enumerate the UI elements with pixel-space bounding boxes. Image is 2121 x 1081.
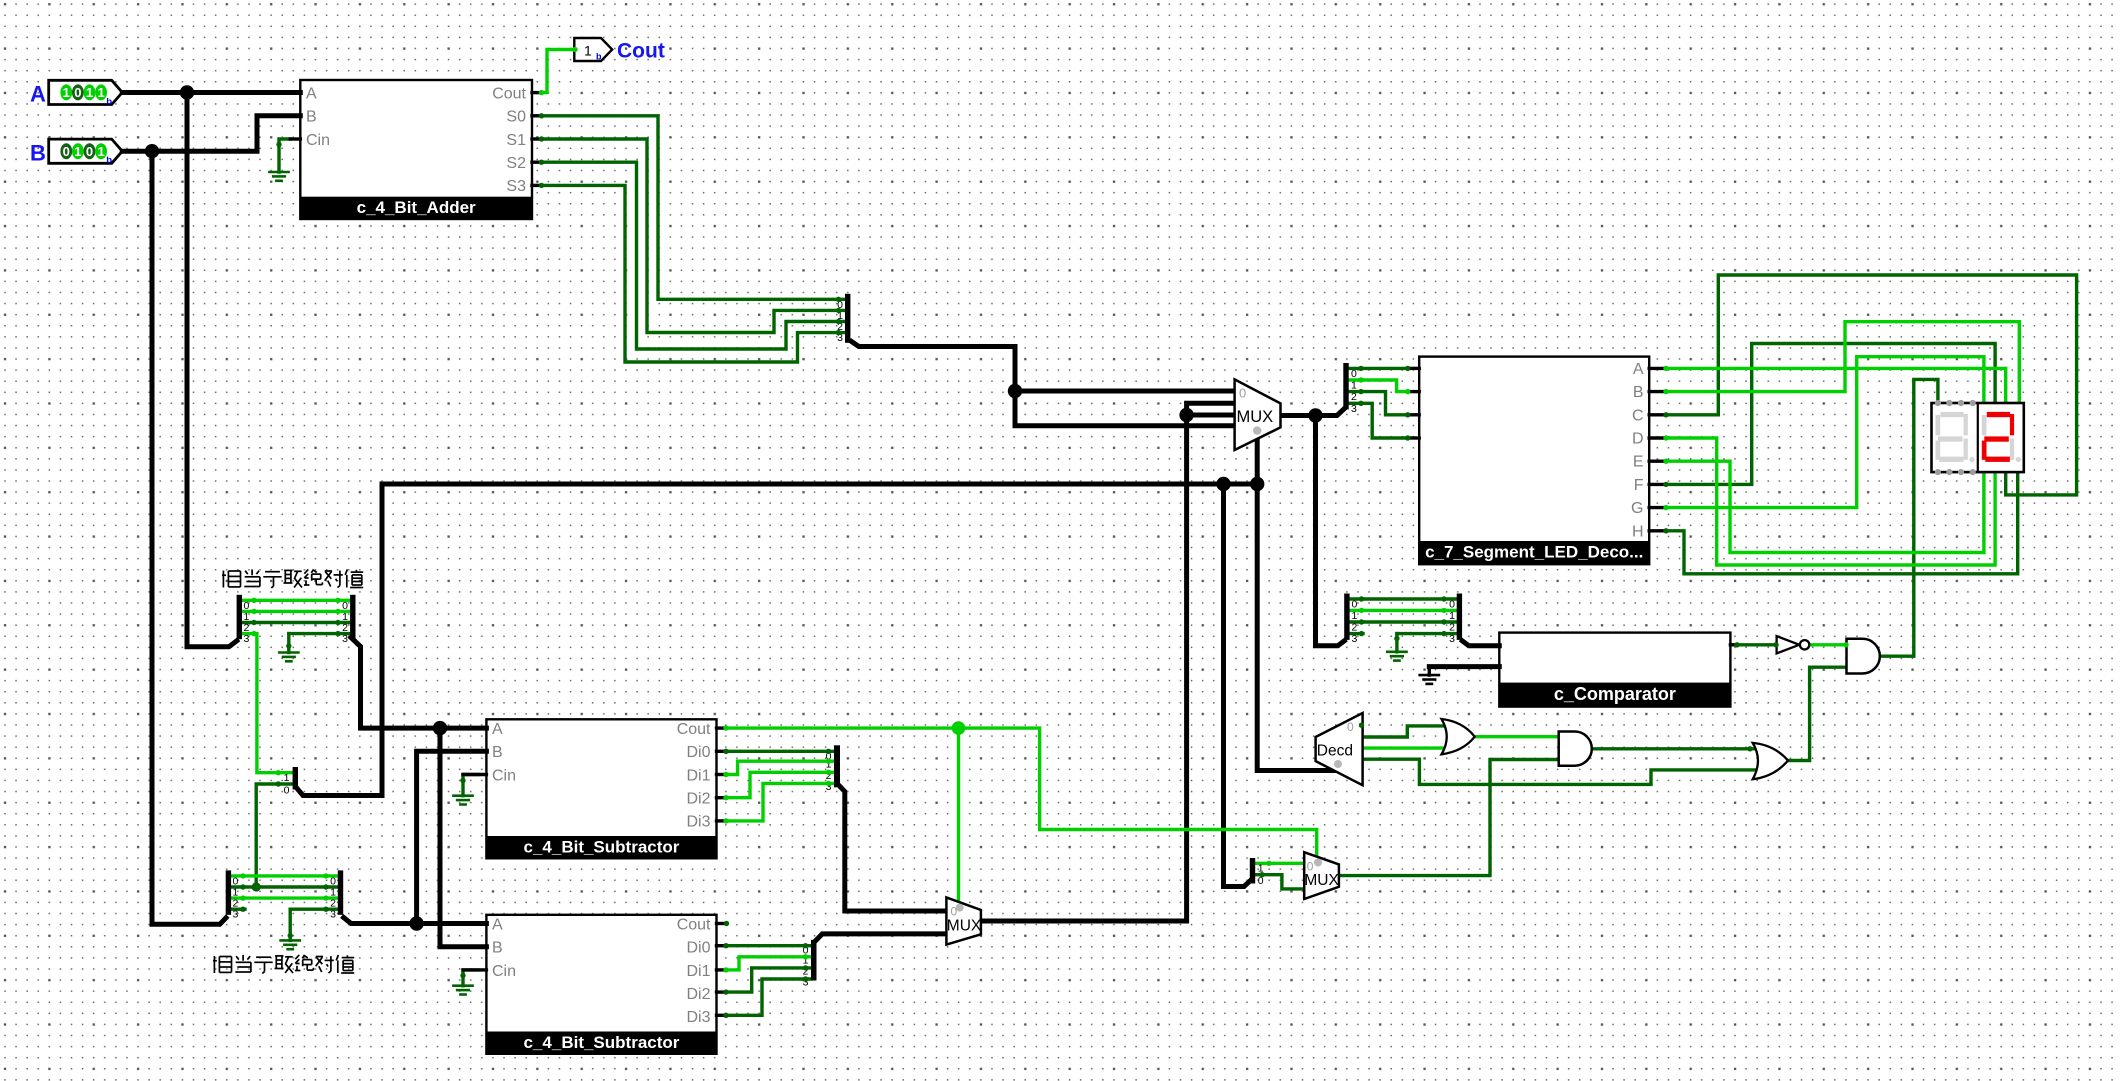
wire decoder splitter pin3 bbox=[1349, 403, 1408, 438]
svg-text:Di2: Di2 bbox=[686, 791, 710, 808]
svg-text:b: b bbox=[106, 155, 112, 166]
svg-text:S0: S0 bbox=[506, 109, 526, 126]
svg-text:0: 0 bbox=[284, 785, 290, 797]
black junction nodes bbox=[145, 85, 1323, 930]
7-segment display (showing 2) bbox=[1932, 400, 2024, 475]
NOT gate G1 bbox=[1777, 636, 1810, 653]
wire NOT gate output to AND G4 bbox=[1809, 643, 1846, 646]
wire splitter S2 row3 stub bbox=[231, 908, 245, 911]
svg-text:Decd: Decd bbox=[1317, 743, 1353, 760]
4-bit subtractor U3 bbox=[486, 915, 716, 1054]
wire MUX1 input2 branch bbox=[1187, 413, 1235, 418]
svg-text:B: B bbox=[492, 940, 503, 957]
svg-text:C: C bbox=[1632, 407, 1644, 424]
wire splitter S1 row0 bbox=[242, 599, 350, 602]
svg-text:G: G bbox=[1631, 500, 1643, 517]
svg-text:B: B bbox=[492, 744, 503, 761]
comparator splitter right bar bbox=[1457, 594, 1462, 640]
svg-text:Cin: Cin bbox=[492, 963, 516, 980]
AND gate G4 (to display) bbox=[1847, 639, 1880, 674]
svg-text:MUX: MUX bbox=[947, 918, 982, 935]
wire select distribution bus bbox=[382, 482, 1257, 487]
wire junction to subtractor U3 B bbox=[440, 728, 486, 947]
wire decoder A to display bbox=[1666, 368, 2006, 403]
svg-text:3: 3 bbox=[1449, 633, 1455, 645]
svg-text:1: 1 bbox=[584, 43, 592, 59]
wire MUX3 output loop to MUX1 in1 bbox=[981, 403, 1235, 921]
wire MUX1 select bbox=[1255, 439, 1260, 484]
comparator splitter left bar bbox=[1344, 594, 1349, 640]
splitter S2 left bar bbox=[226, 870, 231, 914]
svg-text:0: 0 bbox=[1449, 599, 1455, 611]
splitter S2 right bar bbox=[338, 870, 343, 914]
merger M1 bar (adder outputs) bbox=[845, 294, 850, 343]
wire comparator splitter row1 bbox=[1350, 609, 1457, 612]
svg-text:1: 1 bbox=[63, 85, 70, 100]
wire branch down to Decd input bbox=[1257, 484, 1336, 771]
subtractor U2 Di merger bar bbox=[834, 745, 840, 787]
wire decoder G to display bbox=[1666, 357, 1984, 508]
wire splitter S1 row2 bbox=[242, 621, 350, 624]
svg-text:3: 3 bbox=[330, 909, 336, 921]
dark junction node (splitter S2 row1) bbox=[252, 882, 261, 891]
wire splitter S1 row3 ground bbox=[289, 634, 350, 653]
svg-text:Cout: Cout bbox=[677, 721, 711, 738]
wire subtractor U2 Di0 bbox=[726, 750, 834, 753]
wire decoder B to display bbox=[1666, 322, 2019, 403]
AND gate G3 bbox=[1559, 732, 1592, 766]
wire branch to MUX3 select bbox=[957, 728, 960, 902]
OR gate G2 bbox=[1442, 719, 1475, 754]
ground symbol comparator in2 bbox=[1420, 675, 1439, 684]
OR gate G5 bbox=[1753, 743, 1788, 779]
svg-text:0: 0 bbox=[1351, 368, 1357, 380]
MUX2 (2-to-1, right) bbox=[1304, 852, 1339, 899]
wire decoder splitter pin2 bbox=[1349, 392, 1408, 415]
wire subtractor U2 Cout to MUX selects bbox=[726, 728, 1317, 857]
svg-text:Di1: Di1 bbox=[686, 768, 710, 785]
svg-text:S1: S1 bbox=[506, 132, 526, 149]
svg-text:MUX: MUX bbox=[1304, 872, 1339, 889]
svg-text:c_4_Bit_Subtractor: c_4_Bit_Subtractor bbox=[524, 1033, 680, 1052]
svg-text:B: B bbox=[1633, 384, 1644, 401]
svg-text:S3: S3 bbox=[506, 178, 526, 195]
wire S0 bbox=[542, 116, 846, 299]
wire comparator splitter row2 bbox=[1350, 620, 1457, 623]
svg-text:c_7_Segment_LED_Deco...: c_7_Segment_LED_Deco... bbox=[1425, 543, 1643, 562]
wire Decd out2 to OR G2 bbox=[1363, 746, 1444, 749]
wire MUX1 output down to comparator splitter bbox=[1316, 416, 1345, 646]
input pin B (value 0101) bbox=[30, 139, 122, 166]
wire splitter S1 output bus to subtractor U2 A bbox=[351, 638, 486, 729]
svg-text:1: 1 bbox=[97, 85, 104, 100]
wire MUX1 input0 branch bbox=[1015, 389, 1235, 394]
svg-text:1: 1 bbox=[97, 144, 104, 159]
ground symbol U2 Cin bbox=[453, 796, 472, 805]
svg-text:0: 0 bbox=[1352, 599, 1358, 611]
wire comparator splitter row3 ground bbox=[1397, 634, 1457, 652]
wire comparator splitter bus to comparator in1 bbox=[1462, 641, 1499, 646]
svg-text:3: 3 bbox=[1352, 633, 1358, 645]
svg-text:3: 3 bbox=[1351, 403, 1357, 415]
wire comparator splitter row0 bbox=[1350, 597, 1457, 600]
input pin A (value 1011) bbox=[30, 80, 122, 107]
MUX2 input splitter bar bbox=[1250, 858, 1255, 884]
wire OR G5 output to AND G4 bbox=[1788, 667, 1847, 760]
splitter S1 left bar bbox=[237, 595, 242, 639]
wire merger M2 pin0 from splitter S2 row1 bbox=[256, 784, 292, 887]
wire AND G4 output to display bbox=[1880, 379, 1938, 656]
wire Decd out3 to OR gate G5 bbox=[1363, 759, 1755, 784]
node B-junction vertical bus to splitter S2 bbox=[152, 151, 226, 924]
wire comparator in2 to ground bbox=[1429, 667, 1499, 676]
svg-text:F: F bbox=[1634, 477, 1644, 494]
ground symbol adder Cin bbox=[269, 172, 288, 181]
svg-text:H: H bbox=[1632, 523, 1644, 540]
wire MUX2 output to AND gate G3 bbox=[1339, 760, 1559, 876]
wire comparator output to NOT gate bbox=[1737, 643, 1777, 646]
wire subtractor U3 Di bus to MUX3 in1 bbox=[817, 934, 947, 940]
wire splitter S2 row2 bbox=[231, 896, 338, 899]
annotation text 1 (equivalent to absolute value) bbox=[222, 569, 363, 588]
svg-text:A: A bbox=[306, 86, 317, 103]
svg-text:0: 0 bbox=[1347, 720, 1354, 734]
4-bit subtractor U2 bbox=[486, 719, 716, 858]
wire subtractor U2 Di1 bbox=[726, 761, 834, 774]
svg-text:A: A bbox=[492, 721, 503, 738]
wire splitter S1 row1 bbox=[242, 610, 350, 613]
svg-text:b: b bbox=[596, 52, 602, 62]
svg-text:A: A bbox=[492, 917, 503, 934]
wire bus input B to adder bbox=[122, 116, 300, 151]
decoder input splitter bar bbox=[1343, 363, 1348, 409]
svg-text:0: 0 bbox=[86, 144, 93, 159]
svg-text:0: 0 bbox=[63, 144, 70, 159]
wire subtractor U2 Di3 bbox=[726, 783, 834, 821]
svg-text:Di3: Di3 bbox=[686, 814, 710, 831]
svg-text:B: B bbox=[30, 141, 46, 166]
bright junction node (U2 Cout) bbox=[952, 721, 966, 735]
svg-text:B: B bbox=[306, 109, 317, 126]
subtractor U3 Di merger bar bbox=[811, 940, 817, 981]
svg-text:Cin: Cin bbox=[492, 768, 516, 785]
svg-text:3: 3 bbox=[233, 909, 239, 921]
svg-text:1: 1 bbox=[284, 772, 290, 784]
svg-text:1: 1 bbox=[86, 85, 93, 100]
wire AND G3 output to OR G5 bbox=[1591, 747, 1755, 750]
wire adder Cout to output pin bbox=[542, 50, 575, 93]
splitter pin number labels bbox=[233, 299, 1456, 989]
wire MUX2 splitter pin0 to MUX2 in1 bbox=[1256, 875, 1305, 889]
7-segment LED decoder U4 bbox=[1419, 357, 1649, 565]
comparator U5 bbox=[1499, 633, 1730, 707]
wire subtractor U3 Di3 bbox=[726, 979, 811, 1015]
ground symbol comparator splitter bbox=[1387, 652, 1406, 661]
svg-text:S2: S2 bbox=[506, 155, 526, 172]
svg-text:Di0: Di0 bbox=[686, 940, 710, 957]
wire decoder F to display bbox=[1666, 344, 1995, 485]
svg-text:0: 0 bbox=[1307, 860, 1314, 874]
wire splitter S2 output bus to subtractor U3 A bbox=[344, 918, 487, 924]
svg-text:2: 2 bbox=[1351, 391, 1357, 403]
svg-text:c_Comparator: c_Comparator bbox=[1554, 684, 1676, 704]
wire splitter S2 row1 bbox=[231, 885, 338, 888]
wire subtractor U2 Di2 bbox=[726, 772, 834, 797]
wire subtractor U3 Di0 bbox=[726, 944, 811, 947]
svg-text:2: 2 bbox=[1352, 622, 1358, 634]
svg-text:c_4_Bit_Subtractor: c_4_Bit_Subtractor bbox=[524, 838, 680, 857]
wire MUX1 output to decoder splitter bbox=[1281, 410, 1344, 416]
connector dots bbox=[240, 47, 1848, 1018]
svg-text:E: E bbox=[1633, 454, 1644, 471]
wire subtractor U3 Cin to ground bbox=[463, 970, 478, 986]
svg-text:3: 3 bbox=[342, 633, 348, 645]
wire decoder C to display bbox=[1666, 275, 2077, 495]
svg-text:Cout: Cout bbox=[677, 917, 711, 934]
annotation text 2 (equivalent to absolute value) bbox=[213, 955, 354, 974]
wire splitter S1 row3 to merger M2 pin1 bbox=[242, 634, 293, 773]
ground symbol splitter S2 bbox=[281, 940, 300, 949]
node A-junction vertical bus bbox=[187, 93, 237, 647]
svg-text:Cin: Cin bbox=[306, 132, 330, 149]
wire splitter S2 row3 ground bbox=[290, 909, 338, 940]
svg-text:1: 1 bbox=[1351, 380, 1357, 392]
wire little merger M2 bus up to select line bbox=[297, 484, 382, 796]
wire subtractor U2 Di bus to MUX3 in0 bbox=[840, 787, 946, 912]
svg-text:0: 0 bbox=[1239, 386, 1246, 401]
ground symbol splitter S1 bbox=[279, 653, 298, 662]
ground symbol U3 Cin bbox=[453, 986, 472, 995]
output pin Cout (value 1) bbox=[574, 38, 665, 63]
wire decoder H to display bbox=[1666, 472, 2018, 574]
svg-text:1: 1 bbox=[1352, 610, 1358, 622]
4-bit adder U1 bbox=[300, 80, 532, 219]
wire S1 bbox=[542, 139, 846, 333]
svg-text:1: 1 bbox=[74, 144, 81, 159]
wire splitter S2 row0 bbox=[231, 874, 338, 877]
svg-text:Di3: Di3 bbox=[686, 1009, 710, 1026]
svg-text:A: A bbox=[30, 82, 46, 107]
wire decoder D to display bbox=[1666, 438, 1995, 565]
MUX1 (4-to-1) bbox=[1235, 379, 1281, 450]
wire decoder E to display bbox=[1666, 461, 1984, 552]
svg-text:0: 0 bbox=[74, 85, 81, 100]
merger M2 bar (abs select) bbox=[293, 767, 298, 790]
wire adder-S merger bus to MUX1 in0/in3 bbox=[852, 342, 1235, 426]
svg-text:c_4_Bit_Adder: c_4_Bit_Adder bbox=[357, 198, 476, 217]
splitter S1 right bar bbox=[350, 595, 355, 639]
decoder Decd bbox=[1316, 713, 1363, 785]
wire adder Cin to ground bbox=[279, 139, 290, 172]
wire S2 bbox=[542, 162, 846, 349]
svg-text:Di1: Di1 bbox=[686, 963, 710, 980]
svg-text:3: 3 bbox=[244, 633, 250, 645]
svg-text:Cout: Cout bbox=[492, 86, 526, 103]
wire comparator splitter row3 stub bbox=[1350, 632, 1363, 635]
svg-text:Di0: Di0 bbox=[686, 744, 710, 761]
wire Decd out1 to OR gate G2 bbox=[1363, 726, 1444, 737]
MUX3 (2-to-1, bottom center) bbox=[946, 897, 982, 944]
wire decoder splitter pin1 bbox=[1349, 380, 1408, 392]
wire decoder splitter pin0 bbox=[1349, 367, 1408, 370]
wire S3 bbox=[542, 185, 846, 362]
wire subtractor U3 Di1 bbox=[726, 957, 811, 970]
wire MUX2 splitter pin1 to MUX2 in0 bbox=[1256, 862, 1305, 865]
svg-text:D: D bbox=[1632, 431, 1644, 448]
pin stubs on component boxes bbox=[290, 93, 1737, 1016]
wire bus input A to adder bbox=[122, 90, 300, 95]
svg-text:b: b bbox=[106, 96, 112, 107]
wire junction up to subtractor U2 B bbox=[417, 751, 487, 923]
wire subtractor U2 Cin to ground bbox=[463, 775, 478, 796]
svg-text:2: 2 bbox=[1449, 622, 1455, 634]
svg-text:1: 1 bbox=[1449, 610, 1455, 622]
wire OR G2 output to AND G3 bbox=[1475, 735, 1559, 738]
svg-text:Di2: Di2 bbox=[686, 986, 710, 1003]
svg-text:MUX: MUX bbox=[1237, 408, 1274, 426]
wire branch down to MUX2 splitter bbox=[1224, 484, 1250, 887]
wire subtractor U3 Di2 bbox=[726, 968, 811, 992]
svg-text:Cout: Cout bbox=[617, 40, 665, 63]
svg-text:A: A bbox=[1633, 361, 1644, 378]
